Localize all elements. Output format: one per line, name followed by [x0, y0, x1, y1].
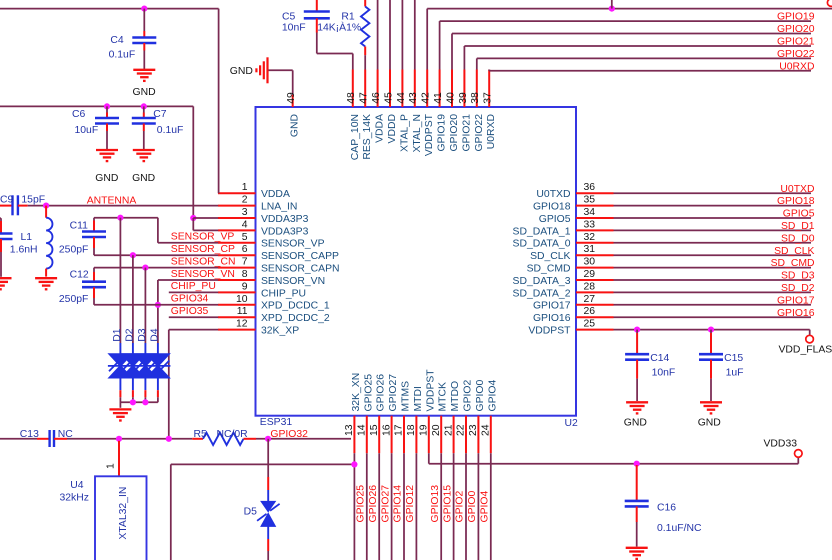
svg-text:44: 44	[396, 92, 407, 104]
svg-text:15pF: 15pF	[21, 194, 45, 205]
svg-text:32K_XN: 32K_XN	[351, 373, 362, 412]
svg-text:GND: GND	[698, 418, 721, 429]
svg-text:GPIO27: GPIO27	[388, 374, 399, 412]
svg-text:25: 25	[584, 319, 596, 330]
svg-text:17: 17	[394, 424, 405, 436]
svg-text:CHIP_PU: CHIP_PU	[171, 281, 216, 292]
svg-text:37: 37	[483, 92, 494, 104]
svg-text:GPIO0: GPIO0	[475, 380, 486, 412]
svg-text:30: 30	[584, 257, 596, 268]
svg-text:43: 43	[408, 92, 419, 104]
svg-text:GPIO19: GPIO19	[437, 114, 448, 152]
svg-text:VDDA: VDDA	[375, 114, 386, 143]
svg-text:32: 32	[584, 232, 596, 243]
svg-text:26: 26	[584, 306, 596, 317]
svg-text:C12: C12	[70, 270, 89, 281]
svg-text:GPIO17: GPIO17	[777, 295, 815, 306]
svg-text:GPIO34: GPIO34	[171, 294, 209, 305]
svg-text:18: 18	[406, 424, 417, 436]
svg-text:MTMS: MTMS	[401, 381, 412, 412]
svg-text:20: 20	[431, 424, 442, 436]
svg-text:SENSOR_VP: SENSOR_VP	[261, 239, 325, 250]
svg-text:VDDPST: VDDPST	[528, 326, 571, 337]
svg-text:C14: C14	[650, 353, 669, 364]
svg-text:250pF: 250pF	[59, 245, 88, 256]
svg-text:R1: R1	[341, 12, 355, 23]
svg-text:GPIO14: GPIO14	[393, 485, 404, 523]
svg-text:GPIO17: GPIO17	[533, 301, 571, 312]
svg-text:NC: NC	[58, 429, 74, 440]
svg-text:GPIO2: GPIO2	[463, 380, 474, 412]
svg-text:33: 33	[584, 219, 596, 230]
svg-text:19: 19	[419, 424, 430, 436]
svg-text:SENSOR_CAPN: SENSOR_CAPN	[261, 264, 340, 275]
svg-text:CHIP_PU: CHIP_PU	[261, 288, 306, 299]
svg-text:24: 24	[481, 424, 492, 436]
svg-text:GPIO27: GPIO27	[380, 485, 391, 523]
svg-text:SD_DATA_1: SD_DATA_1	[513, 226, 571, 237]
svg-text:C13: C13	[20, 429, 39, 440]
svg-text:U0TXD: U0TXD	[780, 184, 814, 195]
svg-text:GPIO12: GPIO12	[405, 485, 416, 523]
svg-text:GPIO19: GPIO19	[777, 12, 815, 23]
svg-text:42: 42	[421, 92, 432, 104]
svg-text:21: 21	[443, 424, 454, 436]
svg-text:27: 27	[584, 294, 596, 305]
svg-text:15: 15	[369, 424, 380, 436]
svg-text:C16: C16	[657, 503, 676, 514]
svg-text:GND: GND	[624, 418, 647, 429]
svg-text:C5: C5	[282, 12, 296, 23]
svg-text:SD_D0: SD_D0	[781, 233, 815, 244]
svg-text:GND: GND	[133, 87, 156, 98]
svg-text:GPIO26: GPIO26	[368, 485, 379, 523]
svg-text:GPIO25: GPIO25	[356, 485, 367, 523]
svg-text:41: 41	[433, 92, 444, 104]
svg-text:XPD_DCDC_2: XPD_DCDC_2	[261, 313, 330, 324]
svg-text:U0RXD: U0RXD	[779, 61, 814, 72]
svg-text:39: 39	[458, 92, 469, 104]
svg-text:XTAL32_IN: XTAL32_IN	[118, 487, 129, 540]
svg-text:U0RXD: U0RXD	[486, 114, 497, 149]
svg-text:GPIO32: GPIO32	[270, 429, 308, 440]
svg-text:GPIO22: GPIO22	[474, 114, 485, 152]
svg-text:23: 23	[468, 424, 479, 436]
svg-text:47: 47	[359, 92, 370, 104]
svg-text:VDDPST: VDDPST	[424, 113, 435, 156]
svg-text:49: 49	[286, 92, 297, 104]
svg-text:GPIO18: GPIO18	[533, 202, 571, 213]
svg-text:GPIO25: GPIO25	[363, 374, 374, 412]
svg-text:SENSOR_CP: SENSOR_CP	[171, 244, 235, 255]
svg-text:VDDA3P3: VDDA3P3	[261, 226, 309, 237]
svg-text:GPIO21: GPIO21	[461, 114, 472, 152]
svg-text:40: 40	[445, 92, 456, 104]
svg-text:GPIO5: GPIO5	[783, 209, 815, 220]
svg-text:GPIO20: GPIO20	[777, 24, 815, 35]
svg-text:14: 14	[357, 424, 368, 436]
svg-text:U0TXD: U0TXD	[536, 189, 570, 200]
svg-text:GPIO21: GPIO21	[777, 37, 815, 48]
svg-text:48: 48	[346, 92, 357, 104]
svg-text:35: 35	[584, 195, 596, 206]
svg-text:GPIO22: GPIO22	[777, 49, 815, 60]
svg-text:28: 28	[584, 281, 596, 292]
svg-text:GND: GND	[132, 173, 155, 184]
svg-text:L1: L1	[21, 232, 33, 243]
svg-text:MTDO: MTDO	[450, 381, 461, 412]
svg-text:8: 8	[242, 269, 248, 280]
svg-text:0.1uF/NC: 0.1uF/NC	[657, 523, 702, 534]
svg-text:10: 10	[236, 294, 248, 305]
svg-text:SD_D2: SD_D2	[781, 283, 815, 294]
svg-text:RES_14K: RES_14K	[362, 114, 373, 160]
svg-text:SD_CLK: SD_CLK	[530, 251, 570, 262]
svg-text:C7: C7	[153, 109, 167, 120]
svg-text:C11: C11	[70, 220, 89, 231]
svg-text:MTDI: MTDI	[413, 386, 424, 411]
svg-text:3: 3	[242, 207, 248, 218]
svg-text:SENSOR_VN: SENSOR_VN	[171, 269, 235, 280]
svg-text:D5: D5	[244, 507, 258, 518]
svg-text:SD_DATA_0: SD_DATA_0	[513, 239, 571, 250]
svg-text:GPIO35: GPIO35	[171, 306, 209, 317]
svg-text:SENSOR_CAPP: SENSOR_CAPP	[261, 251, 339, 262]
svg-text:5: 5	[242, 232, 248, 243]
svg-text:LNA_IN: LNA_IN	[261, 202, 297, 213]
svg-text:D4: D4	[149, 328, 160, 342]
svg-text:D1: D1	[112, 328, 123, 342]
svg-text:U4: U4	[70, 480, 84, 491]
svg-text:45: 45	[383, 92, 394, 104]
svg-text:1: 1	[106, 463, 117, 469]
svg-text:SD_CLK: SD_CLK	[774, 246, 814, 257]
svg-text:1: 1	[242, 182, 248, 193]
svg-text:2: 2	[242, 195, 248, 206]
svg-text:XTAL_P: XTAL_P	[399, 114, 410, 152]
svg-text:SENSOR_VN: SENSOR_VN	[261, 276, 325, 287]
svg-text:U2: U2	[565, 418, 579, 429]
svg-text:SD_CMD: SD_CMD	[527, 264, 571, 275]
svg-text:CAP_10N: CAP_10N	[350, 114, 361, 160]
svg-text:XPD_DCDC_1: XPD_DCDC_1	[261, 301, 330, 312]
svg-text:GPIO4: GPIO4	[487, 380, 498, 412]
svg-text:0.1uF: 0.1uF	[157, 125, 184, 136]
svg-text:NC/0R: NC/0R	[217, 429, 249, 440]
svg-text:GPIO15: GPIO15	[442, 485, 453, 523]
svg-text:9: 9	[242, 281, 248, 292]
svg-text:D3: D3	[137, 328, 148, 342]
svg-text:GPIO18: GPIO18	[777, 196, 815, 207]
svg-text:VDDPST: VDDPST	[425, 369, 436, 412]
svg-text:SD_CMD: SD_CMD	[771, 258, 815, 269]
svg-text:GND: GND	[95, 173, 118, 184]
svg-text:46: 46	[371, 92, 382, 104]
svg-text:GPIO20: GPIO20	[449, 114, 460, 152]
svg-text:7: 7	[242, 257, 248, 268]
svg-text:1.6nH: 1.6nH	[10, 245, 38, 256]
svg-text:SD_D3: SD_D3	[781, 271, 815, 282]
svg-text:4: 4	[242, 219, 248, 230]
svg-text:16: 16	[381, 424, 392, 436]
svg-text:36: 36	[584, 182, 596, 193]
svg-text:GPIO4: GPIO4	[480, 491, 491, 523]
svg-text:10uF: 10uF	[75, 125, 99, 136]
svg-text:SD_DATA_2: SD_DATA_2	[513, 288, 571, 299]
svg-text:VDDA: VDDA	[261, 189, 290, 200]
svg-text:GPIO16: GPIO16	[777, 308, 815, 319]
svg-text:34: 34	[584, 207, 596, 218]
svg-text:250pF: 250pF	[59, 294, 88, 305]
svg-text:GPIO13: GPIO13	[430, 485, 441, 523]
svg-text:11: 11	[237, 306, 248, 317]
svg-text:32K_XP: 32K_XP	[261, 326, 299, 337]
svg-text:14K¡À1%: 14K¡À1%	[317, 21, 361, 34]
svg-text:C9: C9	[0, 194, 14, 205]
svg-text:ESP31: ESP31	[260, 417, 293, 428]
svg-text:SENSOR_CN: SENSOR_CN	[171, 256, 236, 267]
svg-text:C6: C6	[72, 109, 86, 120]
svg-text:GPIO0: GPIO0	[467, 491, 478, 523]
svg-text:D2: D2	[124, 328, 135, 342]
svg-text:32kHz: 32kHz	[60, 493, 89, 504]
svg-text:C4: C4	[110, 35, 124, 46]
svg-text:R5: R5	[194, 429, 208, 440]
svg-text:22: 22	[456, 424, 467, 436]
svg-text:VDDD: VDDD	[387, 114, 398, 143]
svg-text:GND: GND	[230, 66, 253, 77]
svg-text:SD_D1: SD_D1	[781, 221, 815, 232]
svg-text:38: 38	[470, 92, 481, 104]
svg-text:GPIO16: GPIO16	[533, 313, 571, 324]
svg-text:GPIO2: GPIO2	[455, 491, 466, 523]
svg-text:VDD33: VDD33	[764, 439, 798, 450]
svg-text:VDDA3P3: VDDA3P3	[261, 214, 309, 225]
svg-text:GPIO26: GPIO26	[376, 374, 387, 412]
svg-text:SD_DATA_3: SD_DATA_3	[513, 276, 571, 287]
svg-text:GPIO5: GPIO5	[539, 214, 571, 225]
svg-text:MTCK: MTCK	[438, 382, 449, 412]
svg-text:13: 13	[344, 424, 355, 436]
svg-text:10nF: 10nF	[282, 23, 306, 34]
svg-text:0.1uF: 0.1uF	[109, 50, 136, 61]
svg-text:VDD_FLASH: VDD_FLASH	[779, 344, 832, 355]
svg-text:1uF: 1uF	[726, 368, 744, 379]
svg-text:6: 6	[242, 244, 248, 255]
svg-text:10nF: 10nF	[652, 368, 676, 379]
svg-text:31: 31	[584, 244, 596, 255]
svg-text:SENSOR_VP: SENSOR_VP	[171, 232, 235, 243]
svg-text:12: 12	[236, 319, 248, 330]
svg-text:29: 29	[584, 269, 596, 280]
svg-text:C15: C15	[724, 353, 743, 364]
svg-text:GND: GND	[290, 114, 301, 137]
svg-text:XTAL_N: XTAL_N	[412, 114, 423, 153]
svg-text:ANTENNA: ANTENNA	[87, 195, 137, 206]
